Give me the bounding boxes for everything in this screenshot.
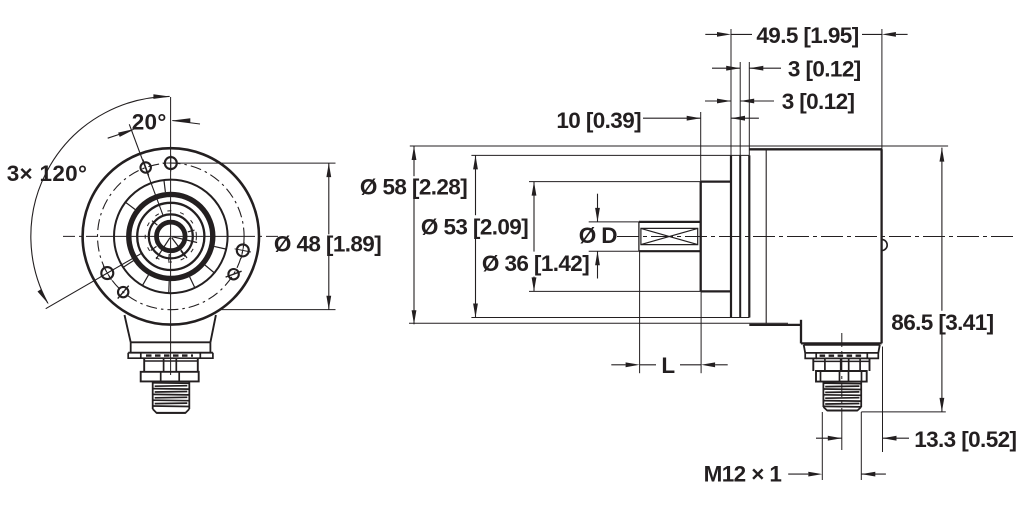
front view circle r22 <box>149 214 193 258</box>
svg-text:13.3 [0.52]: 13.3 [0.52] <box>914 427 1016 452</box>
dim Ø58 line <box>412 146 417 324</box>
label Ø36 <box>482 251 589 276</box>
svg-text:3 [0.12]: 3 [0.12] <box>788 56 861 81</box>
front view face recess circle <box>114 180 228 294</box>
dim 10 line <box>643 116 759 121</box>
side connector thread <box>823 382 861 411</box>
svg-text:M12 × 1: M12 × 1 <box>704 462 782 487</box>
label 3 upper <box>788 56 861 81</box>
front view bolt circle Ø48 (dash-dot) <box>98 163 245 310</box>
svg-text:3 [0.12]: 3 [0.12] <box>782 89 855 114</box>
20deg leader line through screw <box>129 124 163 216</box>
dim ØD arrows <box>595 194 600 279</box>
side clamping plates 3+3 <box>731 155 749 317</box>
dim L line <box>611 362 727 367</box>
label Ø53 <box>421 215 528 240</box>
dim 3 lower line <box>705 99 774 104</box>
svg-text:86.5 [3.41]: 86.5 [3.41] <box>891 310 993 335</box>
20deg arrow at vertical centreline <box>172 118 200 124</box>
label 13.3 <box>914 427 1016 452</box>
side body Ø58 housing <box>749 149 881 343</box>
front view vertical centreline <box>170 97 172 375</box>
dim 3 upper line <box>712 66 781 71</box>
front view mounting hole at 210deg <box>100 266 114 280</box>
front view housing outer circle Ø58 <box>83 148 259 324</box>
dim 13.3 line <box>816 436 909 441</box>
dim 3 upper ext lines <box>740 62 749 155</box>
svg-text:49.5 [1.95]: 49.5 [1.95] <box>756 23 858 48</box>
dim M12 line <box>788 472 886 477</box>
dim Ø58 extension lines <box>409 146 948 323</box>
label Ø58 <box>360 175 467 200</box>
svg-text:Ø 48 [1.89]: Ø 48 [1.89] <box>274 232 381 257</box>
label ØD <box>579 223 618 248</box>
dim L ext lines <box>640 251 702 373</box>
dim 49.5 ext left <box>730 29 732 155</box>
front view clamping ring slots <box>124 181 226 293</box>
svg-text:Ø 58 [2.28]: Ø 58 [2.28] <box>360 175 467 200</box>
dim Ø48 extension bottom <box>222 309 336 311</box>
side connector centreline <box>841 333 843 450</box>
label 49.5 <box>756 23 858 48</box>
radial line at 210deg <box>46 253 142 308</box>
label L <box>661 353 675 378</box>
dim 49.5 line <box>705 32 907 37</box>
front view screw at 110deg <box>141 160 151 176</box>
dim 10 extension <box>700 112 702 182</box>
label Ø48 <box>274 232 381 257</box>
svg-text:Ø 36 [1.42]: Ø 36 [1.42] <box>482 251 589 276</box>
label 86.5 <box>891 310 993 335</box>
front connector thread M12 <box>153 381 190 413</box>
side shaft clamping insert box with cross <box>641 228 698 244</box>
label 10 <box>556 108 641 133</box>
side hub Ø36 <box>701 182 731 292</box>
dim Ø53 extension lines <box>471 155 749 317</box>
front view screw at 230deg <box>118 286 129 299</box>
label 20deg <box>132 110 167 135</box>
svg-text:Ø D: Ø D <box>579 223 618 248</box>
svg-text:L: L <box>661 353 675 378</box>
label 3x120 <box>7 161 88 186</box>
label M12 <box>704 462 782 487</box>
front view dashed circle r25 <box>145 211 196 262</box>
svg-text:20°: 20° <box>132 110 167 135</box>
dim Ø48 extension top <box>177 162 335 164</box>
dim 86.5 line <box>940 148 945 412</box>
dim Ø36 line <box>532 182 537 292</box>
side shaft ØD outline <box>639 222 701 251</box>
svg-text:10 [0.39]: 10 [0.39] <box>556 108 641 133</box>
front connector body <box>125 315 216 381</box>
front view shaft bore ring <box>157 222 186 251</box>
front view mounting hole at 90deg <box>163 155 180 172</box>
dim Ø53 line <box>473 155 478 317</box>
dim ØD extension stubs <box>589 222 639 251</box>
front view thick seal ring <box>129 194 213 278</box>
20deg arrow at leader line <box>108 129 136 139</box>
3x120 arc <box>31 94 171 304</box>
dim Ø36 extension lines <box>529 182 703 292</box>
dim M12 ext lines <box>822 412 861 480</box>
side connector body <box>804 345 880 382</box>
side view centreline <box>617 236 1016 238</box>
label 3 lower <box>782 89 855 114</box>
front view circle r32 <box>137 203 204 270</box>
front view screw at 329deg <box>226 269 242 279</box>
dim 86.5 ext bottom <box>861 411 946 413</box>
front view mounting hole at 349deg <box>235 242 251 258</box>
svg-text:3× 120°: 3× 120° <box>7 161 88 186</box>
svg-text:Ø 53 [2.09]: Ø 53 [2.09] <box>421 215 528 240</box>
front view collet slot lines <box>151 221 197 261</box>
dim 49.5 ext right <box>881 29 883 151</box>
dim 13.3 ext lines <box>882 347 884 453</box>
dim Ø48 line <box>326 163 331 310</box>
front view horizontal centreline <box>63 235 279 237</box>
side body sealing plug bump <box>882 239 888 250</box>
